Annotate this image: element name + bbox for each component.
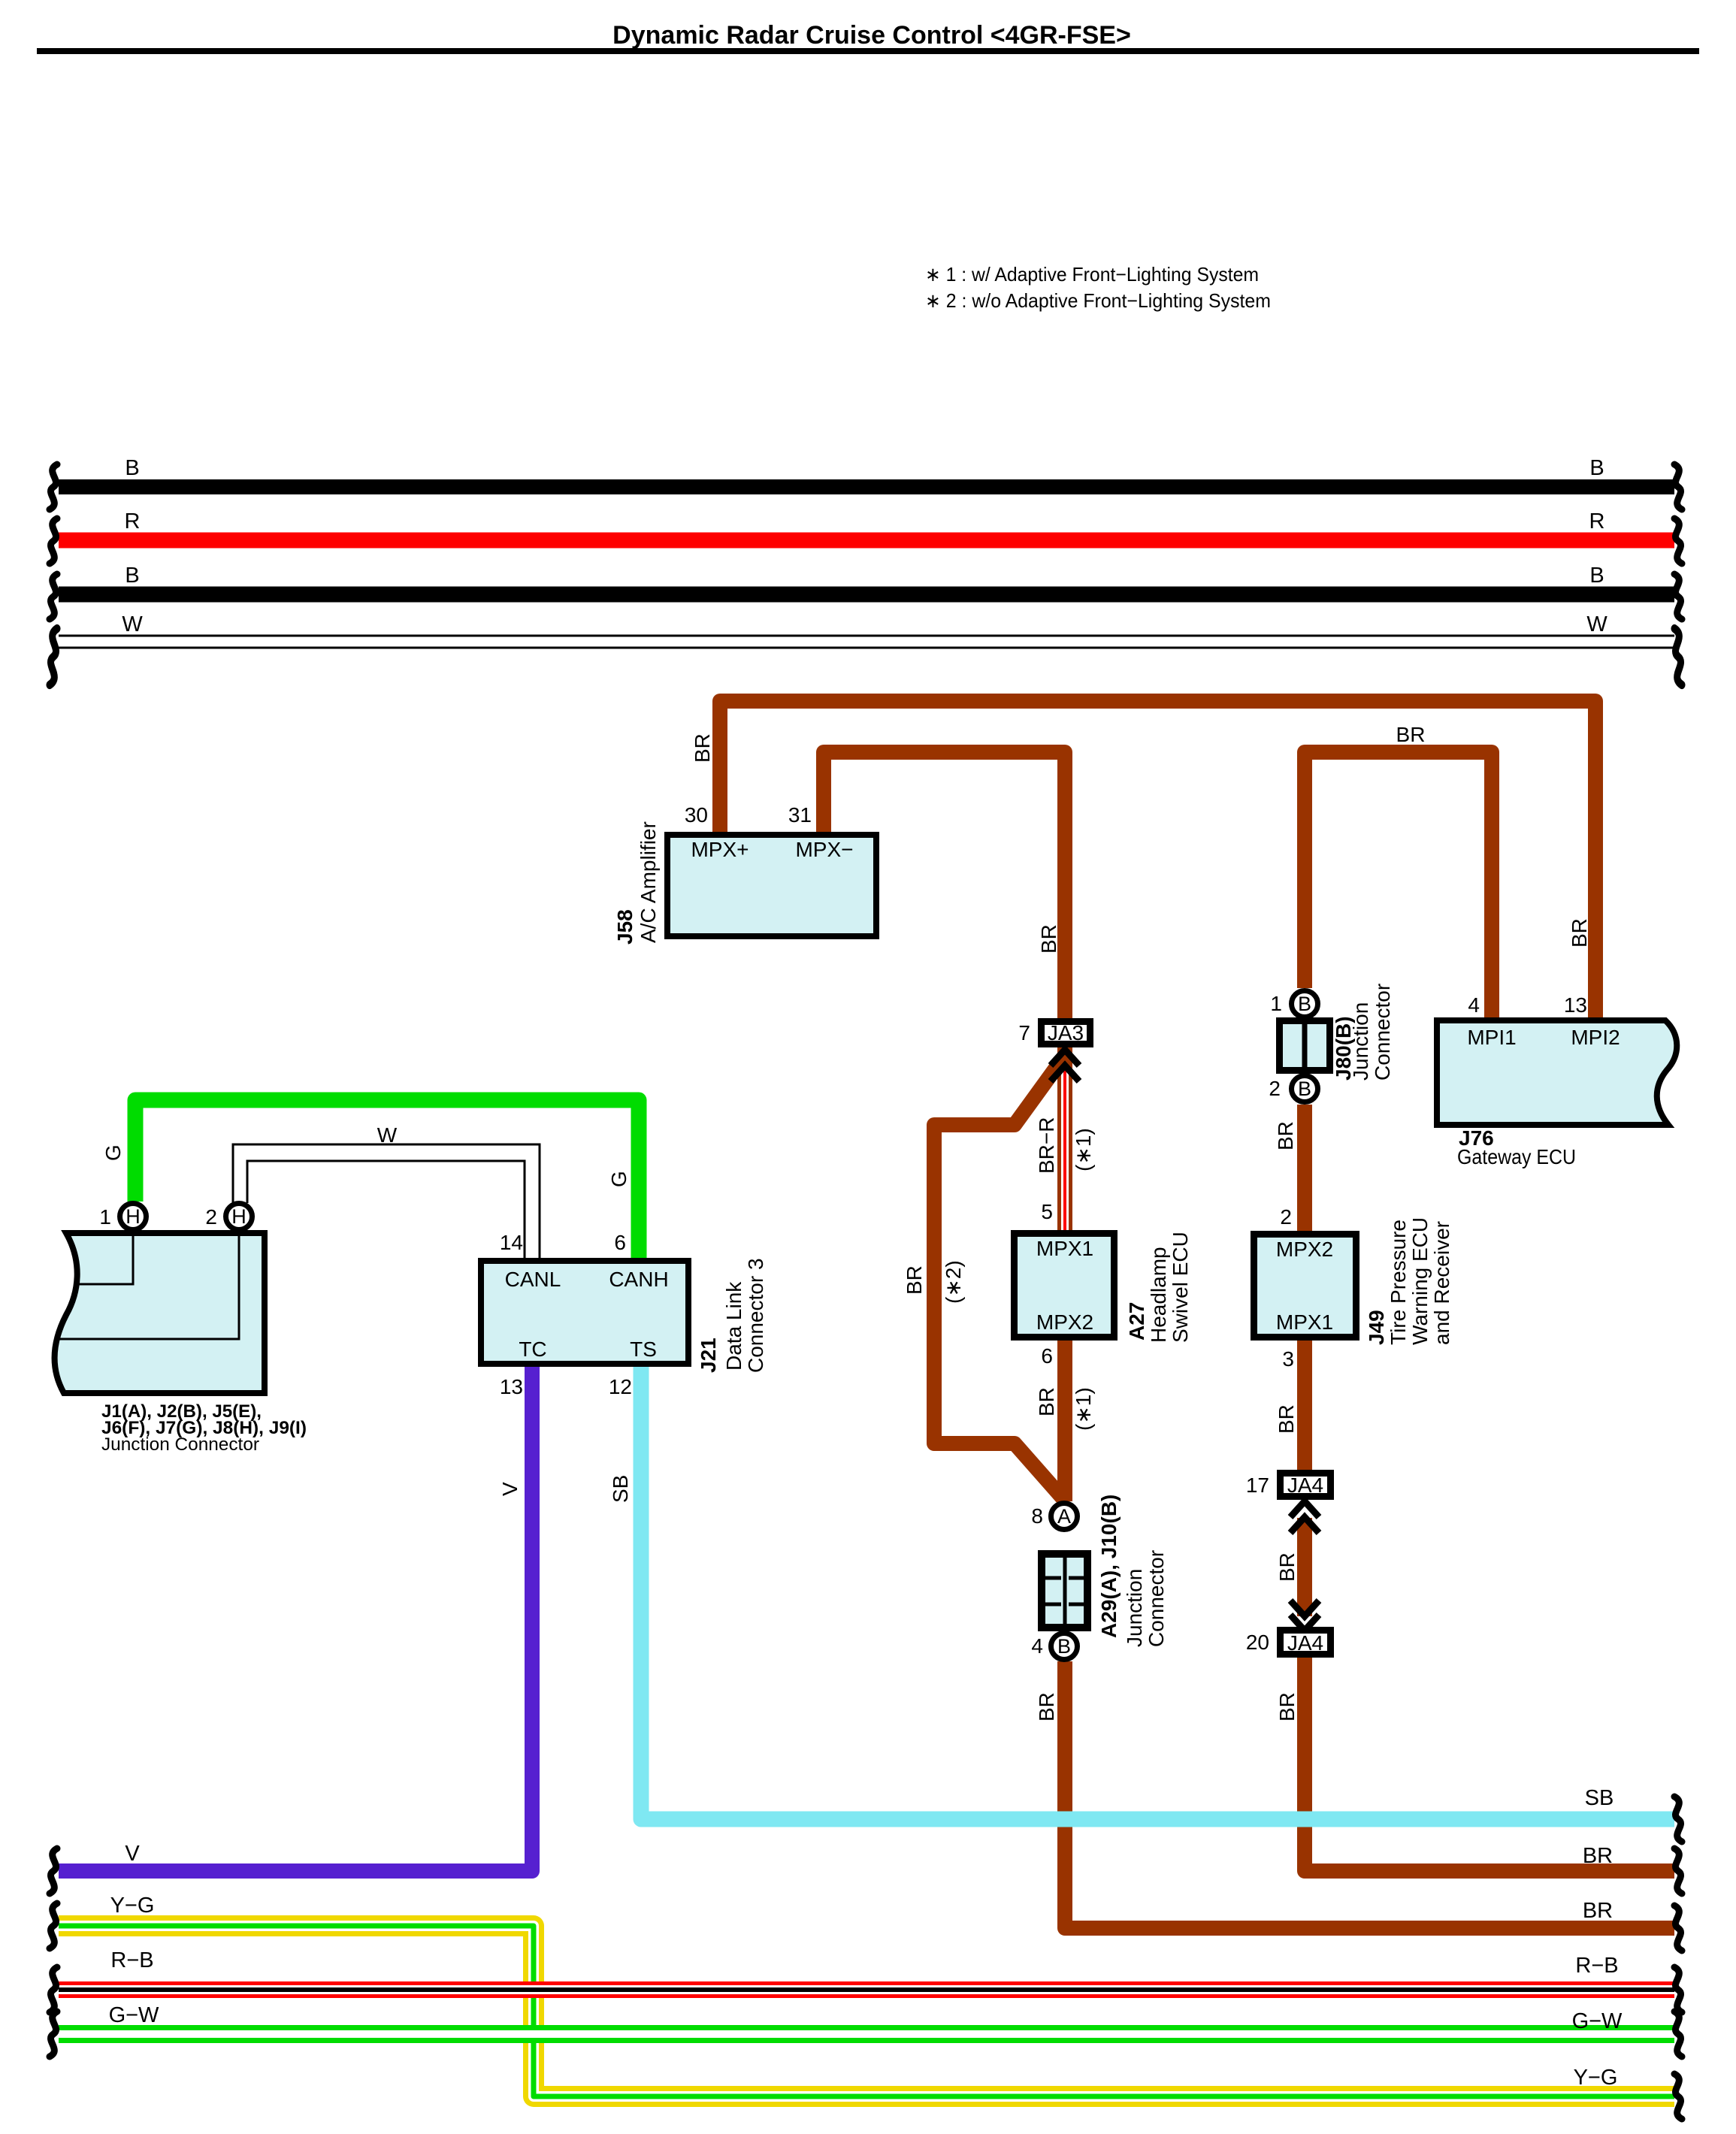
svg-text:BR: BR <box>1583 1844 1613 1868</box>
svg-text:MPX1: MPX1 <box>1036 1237 1093 1260</box>
svg-text:20: 20 <box>1246 1631 1269 1654</box>
svg-text:W: W <box>1586 612 1607 636</box>
svg-text:1: 1 <box>99 1205 111 1229</box>
svg-text:B: B <box>1298 993 1311 1015</box>
svg-text:R−B: R−B <box>1575 1954 1618 1978</box>
svg-text:G−W: G−W <box>109 2003 159 2027</box>
svg-text:Swivel ECU: Swivel ECU <box>1169 1232 1192 1343</box>
svg-text:Headlamp: Headlamp <box>1147 1247 1170 1343</box>
svg-text:JA4: JA4 <box>1287 1474 1323 1497</box>
svg-text:J58: J58 <box>613 909 637 945</box>
svg-text:BR: BR <box>1275 1404 1298 1434</box>
svg-text:Connector: Connector <box>1145 1550 1168 1647</box>
svg-text:BR: BR <box>1274 1121 1297 1150</box>
svg-text:5: 5 <box>1041 1200 1053 1223</box>
svg-text:(∗2): (∗2) <box>942 1260 965 1304</box>
svg-text:V: V <box>498 1482 522 1496</box>
svg-text:MPX2: MPX2 <box>1276 1238 1333 1261</box>
svg-text:Warning ECU: Warning ECU <box>1408 1217 1432 1345</box>
svg-text:A27: A27 <box>1125 1302 1148 1341</box>
svg-text:MPX+: MPX+ <box>691 838 749 861</box>
svg-text:(∗1): (∗1) <box>1072 1128 1095 1171</box>
svg-text:Y−G: Y−G <box>1574 2066 1618 2090</box>
svg-text:BR: BR <box>1583 1899 1613 1923</box>
svg-text:J49: J49 <box>1365 1310 1388 1345</box>
svg-text:4: 4 <box>1468 993 1480 1017</box>
svg-text:B: B <box>1589 456 1604 480</box>
svg-text:BR: BR <box>691 733 714 763</box>
svg-text:4: 4 <box>1031 1634 1043 1658</box>
svg-text:B: B <box>125 456 139 480</box>
svg-text:Junction: Junction <box>1349 1002 1372 1081</box>
svg-text:MPI1: MPI1 <box>1467 1026 1516 1049</box>
svg-text:W: W <box>122 612 143 636</box>
svg-text:JA4: JA4 <box>1287 1631 1323 1655</box>
svg-text:G: G <box>101 1144 125 1161</box>
svg-text:8: 8 <box>1031 1504 1043 1528</box>
svg-text:Connector: Connector <box>1371 984 1394 1081</box>
svg-text:H: H <box>231 1205 246 1228</box>
svg-text:JA3: JA3 <box>1048 1021 1084 1044</box>
svg-text:MPX1: MPX1 <box>1276 1310 1333 1334</box>
svg-text:A29(A), J10(B): A29(A), J10(B) <box>1097 1495 1121 1638</box>
svg-text:2: 2 <box>1269 1077 1281 1100</box>
svg-text:13: 13 <box>500 1375 523 1398</box>
svg-text:A/C Amplifier: A/C Amplifier <box>637 821 660 943</box>
svg-text:6: 6 <box>614 1231 626 1254</box>
svg-text:Y−G: Y−G <box>110 1894 155 1918</box>
svg-text:6: 6 <box>1041 1344 1053 1368</box>
svg-text:R: R <box>125 509 141 533</box>
svg-text:MPX−: MPX− <box>795 838 853 861</box>
svg-text:BR: BR <box>1037 924 1060 954</box>
svg-text:Connector 3: Connector 3 <box>744 1258 767 1373</box>
svg-text:B: B <box>1589 564 1604 588</box>
svg-text:BR−R: BR−R <box>1035 1117 1058 1174</box>
svg-text:BR: BR <box>1035 1387 1058 1416</box>
svg-text:SB: SB <box>1585 1786 1614 1810</box>
svg-text:B: B <box>125 564 139 588</box>
svg-text:BR: BR <box>1396 723 1426 746</box>
svg-text:14: 14 <box>500 1231 523 1254</box>
svg-text:Data Link: Data Link <box>722 1281 746 1371</box>
svg-text:R−B: R−B <box>110 1948 153 1972</box>
svg-text:Junction: Junction <box>1123 1569 1146 1647</box>
svg-text:MPI2: MPI2 <box>1571 1026 1620 1049</box>
svg-text:Junction Connector: Junction Connector <box>101 1434 259 1455</box>
svg-text:B: B <box>1298 1078 1311 1100</box>
svg-text:31: 31 <box>788 803 812 827</box>
svg-text:H: H <box>126 1205 141 1228</box>
svg-text:(∗1): (∗1) <box>1072 1387 1095 1431</box>
svg-text:SB: SB <box>609 1475 632 1503</box>
svg-text:BR: BR <box>1275 1692 1299 1721</box>
svg-text:MPX2: MPX2 <box>1036 1310 1093 1334</box>
svg-text:BR: BR <box>1568 918 1591 948</box>
svg-text:TS: TS <box>630 1338 657 1361</box>
svg-text:A: A <box>1057 1505 1071 1528</box>
svg-text:13: 13 <box>1564 993 1587 1017</box>
svg-text:BR: BR <box>1275 1552 1299 1582</box>
svg-text:G: G <box>607 1171 631 1187</box>
svg-text:7: 7 <box>1018 1021 1030 1044</box>
svg-text:1: 1 <box>1270 992 1282 1015</box>
svg-text:W: W <box>377 1123 398 1147</box>
svg-text:and Receiver: and Receiver <box>1430 1221 1453 1345</box>
svg-text:BR: BR <box>1035 1692 1058 1721</box>
svg-text:BR: BR <box>903 1265 926 1295</box>
svg-text:B: B <box>1057 1635 1071 1658</box>
svg-text:V: V <box>125 1842 140 1866</box>
svg-text:17: 17 <box>1246 1474 1269 1497</box>
svg-text:30: 30 <box>685 803 708 827</box>
svg-text:J21: J21 <box>697 1338 720 1373</box>
svg-text:G−W: G−W <box>1572 2009 1623 2033</box>
svg-text:3: 3 <box>1282 1347 1294 1371</box>
svg-text:R: R <box>1589 509 1605 533</box>
svg-text:CANH: CANH <box>609 1268 668 1291</box>
svg-text:CANL: CANL <box>505 1268 561 1291</box>
svg-text:∗ 2 : w/o Adaptive Front−Light: ∗ 2 : w/o Adaptive Front−Lighting System <box>925 289 1271 312</box>
svg-text:∗ 1 : w/ Adaptive Front−Lighti: ∗ 1 : w/ Adaptive Front−Lighting System <box>925 263 1259 286</box>
svg-text:Tire Pressure: Tire Pressure <box>1387 1220 1410 1345</box>
svg-text:Gateway ECU: Gateway ECU <box>1457 1145 1576 1168</box>
svg-text:12: 12 <box>609 1375 632 1398</box>
svg-text:2: 2 <box>1280 1205 1292 1229</box>
svg-text:2: 2 <box>205 1205 217 1229</box>
svg-text:Dynamic Radar Cruise Control <: Dynamic Radar Cruise Control <4GR-FSE> <box>612 21 1131 50</box>
svg-text:TC: TC <box>519 1338 546 1361</box>
